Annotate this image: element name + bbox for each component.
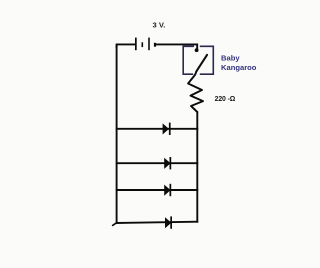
- LED D1 anode triangle: [163, 123, 169, 134]
- wire: rung 2: [116, 162, 198, 164]
- LED D3 anode triangle: [164, 185, 170, 196]
- battery B1: cell plate short 2: [154, 43, 156, 47]
- wire: battery positive to switch (top right corner): [156, 44, 197, 48]
- resistor R1 220 ohm zigzag: [188, 71, 203, 112]
- wire: right rail (positive bus from resistor): [196, 112, 198, 223]
- svg-text:220 -Ω: 220 -Ω: [215, 96, 236, 103]
- svg-text:Baby: Baby: [221, 54, 240, 63]
- battery B1 3V: cell plate long 1: [135, 38, 137, 51]
- wire: top-left from battery to left rail corner: [117, 44, 135, 47]
- svg-text:3 V.: 3 V.: [153, 21, 166, 30]
- LED D1 cathode bar: [169, 123, 171, 135]
- wire: left rail (negative bus): [116, 45, 118, 224]
- LED D2 cathode bar: [170, 157, 172, 169]
- wire: rung 1: [116, 128, 198, 130]
- battery B1: cell plate short 1: [142, 42, 144, 47]
- junction tick at bottom-left corner: [113, 223, 117, 226]
- switch S1 blade (open): [196, 55, 207, 72]
- svg-text:Kangaroo: Kangaroo: [221, 63, 257, 72]
- LED D3 cathode bar: [170, 184, 172, 196]
- LED D4 cathode bar: [170, 216, 172, 228]
- wire: rung 3: [116, 189, 198, 191]
- switch S1 pivot dot: [195, 48, 199, 52]
- LED D4 anode triangle: [165, 217, 171, 228]
- switch enclosure box (navy, gaps top and bottom): [183, 46, 213, 74]
- battery B1: cell plate long 2: [148, 38, 150, 51]
- wire: rung 4 (bottom): [116, 222, 198, 223]
- LED D2 anode triangle: [164, 158, 170, 169]
